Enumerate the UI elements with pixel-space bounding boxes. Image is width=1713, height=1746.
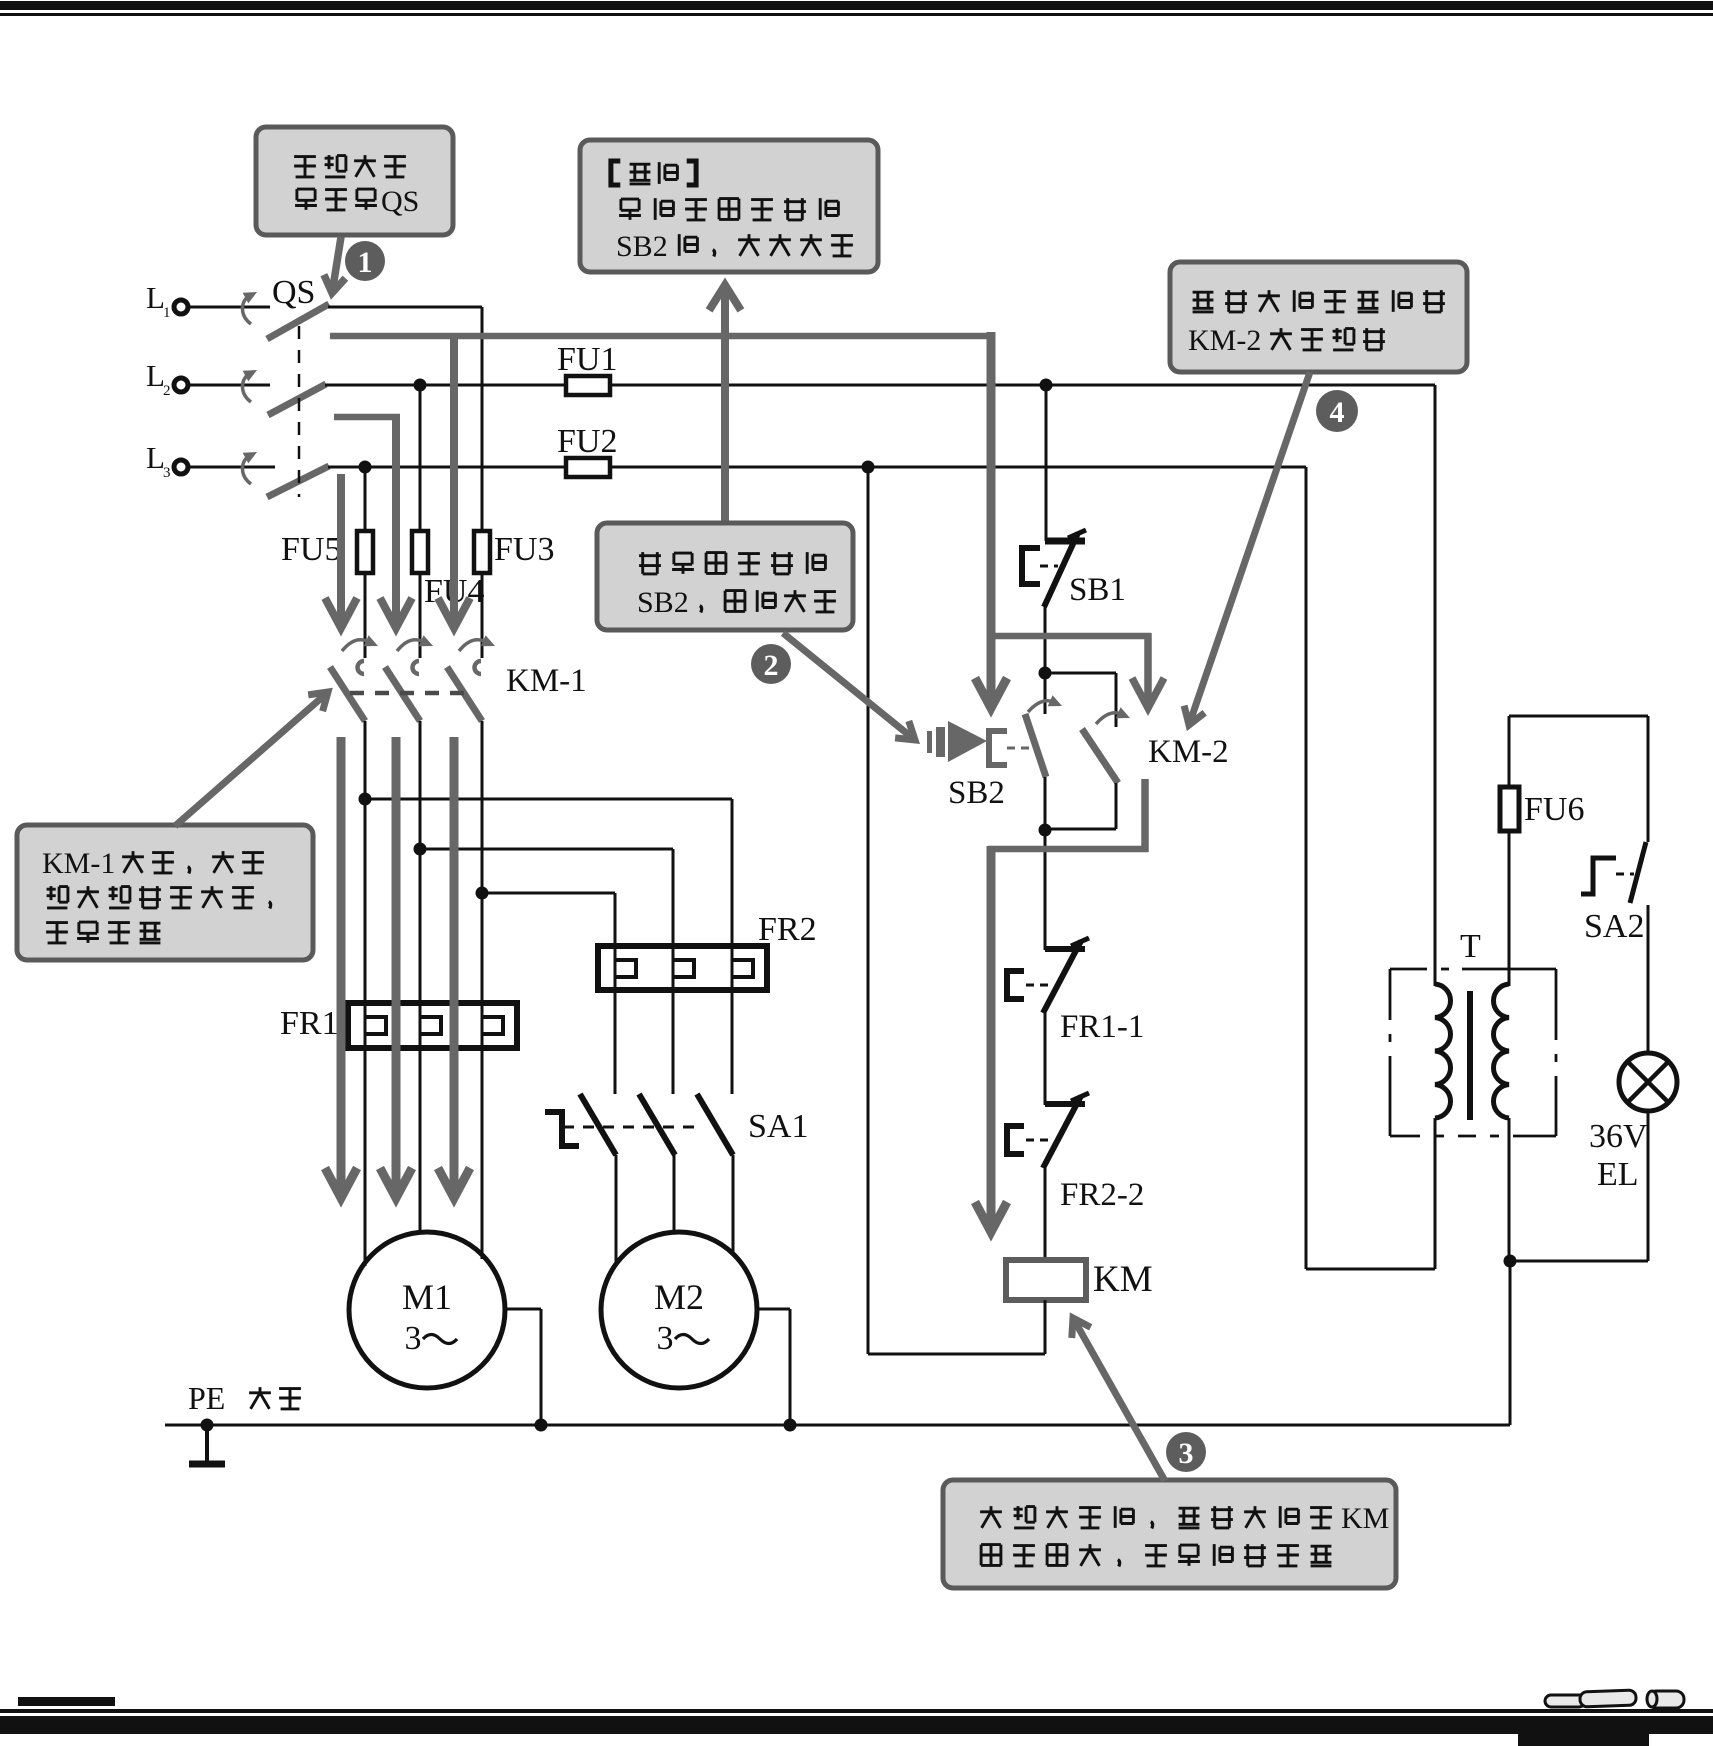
svg-text:1: 1 <box>163 305 171 321</box>
junction dot tap U <box>359 793 372 806</box>
junction dot tap W <box>476 887 489 900</box>
junction dot M2-PE <box>784 1419 797 1432</box>
contact FR1-1 top bar <box>1045 946 1085 952</box>
callout 2 number circle <box>751 644 791 684</box>
lamp EL <box>1619 1053 1677 1111</box>
terminal L2 <box>174 378 188 392</box>
switch QS blade pole3 <box>267 466 329 497</box>
svg-text:FU1: FU1 <box>557 341 617 378</box>
flow path L1 horizontal <box>330 333 995 340</box>
svg-text:2: 2 <box>163 383 171 399</box>
contactor KM-1 pole2 rotation arrow <box>397 640 422 651</box>
callout 2 leader <box>783 633 910 736</box>
svg-text:SA1: SA1 <box>748 1108 808 1145</box>
junction dot PE ground <box>201 1419 214 1432</box>
svg-text:SA2: SA2 <box>1584 908 1644 945</box>
wire tap U to FR2 <box>365 798 732 801</box>
switch SA1 blade2 <box>639 1094 675 1155</box>
switch QS blade pole1 <box>267 304 329 339</box>
wire L3 to QS <box>189 466 275 469</box>
flow arrow motor phase1 <box>337 737 346 1192</box>
contactor KM-1 pole2 operator arc <box>412 661 419 674</box>
bottom-right block mark <box>1518 1734 1649 1746</box>
svg-text:2: 2 <box>764 649 779 682</box>
wire KM-1 pole3 down <box>481 721 484 1048</box>
thermal relay FR2 heater1 <box>615 960 636 977</box>
wire FU5 to KM-1 <box>364 573 367 658</box>
svg-text:FU2: FU2 <box>557 423 617 460</box>
transformer T secondary winding <box>1493 984 1509 1118</box>
callout KM-1 text line3 <box>46 923 68 943</box>
svg-text:KM-1: KM-1 <box>42 847 115 880</box>
svg-text:1: 1 <box>358 246 373 279</box>
callout box KM-1 <box>17 825 313 960</box>
svg-text:QS: QS <box>381 185 419 218</box>
svg-text:KM-1: KM-1 <box>506 663 587 699</box>
contactor KM-1 linkage dashed <box>350 691 464 696</box>
coil KM <box>1006 1260 1086 1300</box>
callout box 3 <box>943 1480 1396 1588</box>
wire control return bottom <box>868 1353 1045 1356</box>
wire tap W to FR2 <box>482 892 615 895</box>
switch SA1 actuator <box>545 1112 579 1146</box>
wire L2 to QS <box>189 384 270 387</box>
wire SB2 to FR1-1 <box>1044 777 1047 950</box>
svg-text:FR1: FR1 <box>280 1005 339 1042</box>
label PE ground hanzi <box>249 1387 271 1409</box>
svg-text:KM: KM <box>1341 1502 1389 1535</box>
contactor KM-1 pole3 blade <box>447 667 482 721</box>
callout note arrow <box>721 291 729 523</box>
wire FR2-2 to KM coil <box>1044 1167 1047 1260</box>
thermal relay FR2 heater3 <box>732 960 753 977</box>
junction dot L3-FU5 tap <box>359 461 372 474</box>
contact FR1-1 actuator <box>1007 971 1024 999</box>
thermal relay FR2 box <box>598 946 767 990</box>
callout note text line2 <box>619 199 641 220</box>
junction dot node A <box>1039 667 1052 680</box>
wire L3 drop to FU5 <box>364 467 367 532</box>
contactor KM-1 pole3 operator arc <box>474 661 481 674</box>
wire M2 PE lead <box>757 1308 790 1311</box>
wire FU6 to winding <box>1508 831 1511 986</box>
switch SA2 blade <box>1630 842 1646 903</box>
wire secondary up to FU6 <box>1508 716 1511 787</box>
page frame bottom thick bar <box>0 1716 1713 1734</box>
wire L1 to QS <box>189 306 270 309</box>
callout 1 text line2 <box>295 189 317 210</box>
pushbutton SB1 top bar <box>1045 538 1085 545</box>
svg-text:4: 4 <box>1330 396 1345 429</box>
wire FR2 to SA1 a <box>614 990 617 1094</box>
bottom-left tab mark <box>18 1697 115 1706</box>
contact KM-2 blade <box>1082 729 1118 783</box>
callout 1 text line1 <box>294 157 316 177</box>
wire control return rail <box>867 467 870 1354</box>
wire FU4 to KM-1 <box>419 573 422 658</box>
svg-text:FR1-1: FR1-1 <box>1060 1009 1144 1045</box>
wire EL bottom to secondary <box>1510 1260 1648 1263</box>
motor M1 circle <box>349 1232 505 1388</box>
contact FR2-2 blade <box>1043 1096 1081 1168</box>
wire PE bus <box>165 1424 1510 1427</box>
callout box 1 <box>256 127 453 235</box>
fuse FU5 <box>357 531 373 573</box>
wire tap V to FR2 <box>420 848 673 851</box>
wire SA1 to M2 a <box>615 1155 618 1266</box>
junction dot tap V <box>414 843 427 856</box>
wire FU3 to KM-1 <box>481 573 484 658</box>
junction dot node B <box>1039 824 1052 837</box>
switch SA1 blade3 <box>697 1094 733 1155</box>
wire M1 lead3 <box>481 1048 484 1259</box>
svg-text:36V: 36V <box>1589 1118 1648 1155</box>
pushbutton SB2 press arrow <box>927 731 932 753</box>
contactor KM-1 pole1 blade <box>330 667 365 721</box>
wire FR2 to SA1 c <box>731 990 734 1094</box>
wire SA1 to M2 c <box>732 1155 735 1257</box>
flow path L1 drop to FU3 branch <box>450 339 458 622</box>
switch SA2 actuator <box>1581 858 1616 894</box>
wire L3 after QS <box>328 466 1306 469</box>
wire KM coil to return <box>1044 1300 1047 1354</box>
wire control drop to SB1 <box>1045 385 1048 541</box>
callout KM-1 text line2 <box>47 886 68 908</box>
wire KM-1 pole2 down <box>419 721 422 1048</box>
callout box note <box>580 140 878 272</box>
flow path to KM-2 branch <box>995 633 1151 640</box>
fuse FU1 <box>566 376 610 395</box>
wire EL down <box>1647 1111 1650 1261</box>
wire SB1 to node <box>1044 605 1047 714</box>
contact FR2-2 actuator <box>1007 1126 1024 1154</box>
callout 3 text line2 <box>981 1545 1001 1566</box>
callout 1 leader <box>333 237 341 287</box>
wire M1 lead2 <box>419 1048 422 1232</box>
switch QS rotation arrow pole2 <box>242 374 251 402</box>
wire node A to KM-2 <box>1045 672 1116 675</box>
transformer T box <box>1390 968 1427 971</box>
svg-text:QS: QS <box>272 274 315 311</box>
wire SA1 to M2 b <box>673 1155 676 1233</box>
contact FR1-1 blade <box>1043 941 1081 1013</box>
fuse FU2 <box>566 458 610 477</box>
wire PE riser <box>1509 1261 1512 1425</box>
svg-text:SB1: SB1 <box>1069 572 1126 608</box>
svg-text:FR2-2: FR2-2 <box>1060 1177 1144 1213</box>
switch QS linkage dashed <box>298 326 301 497</box>
pushbutton SB2 actuator <box>989 731 1007 765</box>
svg-text:SB2: SB2 <box>616 230 668 263</box>
transformer T primary winding <box>1435 984 1451 1118</box>
motor M2 circle <box>601 1232 757 1388</box>
wire M1 PE lead <box>505 1308 541 1311</box>
wire KM-2 bottom <box>1115 783 1118 829</box>
fuse FU6 <box>1500 787 1519 831</box>
svg-text:SB2: SB2 <box>948 775 1005 811</box>
junction dot L3 control tap <box>862 461 875 474</box>
contactor KM-1 pole1 rotation arrow <box>342 640 367 651</box>
junction dot L2 control tap <box>1040 379 1053 392</box>
callout 3 number circle <box>1166 1432 1206 1472</box>
junction dot L2-FU4 tap <box>414 379 427 392</box>
contactor KM-1 pole3 rotation arrow <box>459 640 484 651</box>
page frame bottom thin line <box>0 1709 1713 1713</box>
svg-text:SB2: SB2 <box>637 586 689 619</box>
switch SA1 blade1 <box>580 1094 616 1155</box>
svg-text:T: T <box>1460 928 1481 965</box>
callout 3 text line1 <box>980 1506 1002 1528</box>
wire L2 to transformer primary <box>1434 385 1437 986</box>
thermal relay FR1 heater3 <box>482 1017 503 1034</box>
flow path below KM-2 <box>1141 779 1149 852</box>
pushbutton SB1 blade <box>1044 533 1078 607</box>
wire L1 drop to FU3 <box>481 307 484 532</box>
callout 4 number circle <box>1316 390 1358 432</box>
thermal relay FR1 heater2 <box>420 1017 441 1034</box>
wire L1 after QS <box>328 306 482 309</box>
flow arrow motor phase3 <box>450 737 459 1192</box>
flow arrow motor phase2 <box>392 737 401 1192</box>
svg-text:FR2: FR2 <box>758 911 817 948</box>
thermal relay FR1 box <box>348 1003 517 1048</box>
wire L3 to primary return <box>1305 467 1308 1269</box>
svg-text:KM: KM <box>1093 1259 1153 1300</box>
switch QS blade pole2 <box>268 384 326 415</box>
flow path L3 branch <box>337 474 345 622</box>
wire M1 lead1 <box>364 1048 367 1266</box>
svg-text:KM-2: KM-2 <box>1188 324 1261 357</box>
callout KM-1 leader <box>175 696 324 826</box>
callout 1 number circle <box>345 241 385 281</box>
svg-text:FU3: FU3 <box>494 531 554 568</box>
contact FR2-2 top bar <box>1045 1101 1085 1107</box>
scroll decoration icons <box>1545 1690 1684 1708</box>
wire FR1-1 to FR2-2 <box>1044 1012 1047 1105</box>
thermal relay FR2 heater2 <box>673 960 694 977</box>
page frame top thick bar <box>0 1 1713 10</box>
fuse FU3 <box>474 531 490 573</box>
wire secondary top loop <box>1509 715 1648 718</box>
fuse FU4 <box>412 531 428 573</box>
contactor KM-1 pole1 operator arc <box>358 661 365 674</box>
callout 4 leader <box>1191 372 1310 719</box>
pushbutton SB2 rotation arrow <box>1028 701 1054 712</box>
flow path control drop <box>987 332 996 702</box>
svg-text:EL: EL <box>1597 1156 1639 1193</box>
switch QS rotation arrow pole3 <box>242 456 251 484</box>
page frame top thin line <box>0 13 1713 16</box>
switch SA1 linkage dashed <box>563 1126 702 1129</box>
pushbutton SB1 actuator <box>1022 548 1040 584</box>
svg-text:KM-2: KM-2 <box>1148 734 1229 770</box>
callout note text line1 <box>611 161 620 185</box>
svg-text:3: 3 <box>405 1320 422 1357</box>
wire SA2 to EL <box>1647 905 1650 1053</box>
wire FR2 to SA1 b <box>672 990 675 1094</box>
callout 4 text line1 <box>1193 292 1214 312</box>
terminal L1 <box>174 300 188 314</box>
ground symbol <box>205 1425 209 1462</box>
thermal relay FR1 heater1 <box>365 1017 386 1034</box>
svg-text:M2: M2 <box>654 1277 704 1317</box>
callout box 2 <box>597 523 853 630</box>
contactor KM-1 pole2 blade <box>385 667 420 721</box>
switch QS rotation arrow pole1 <box>242 296 251 324</box>
wire L2 after QS <box>325 384 1435 387</box>
terminal L3 <box>174 460 188 474</box>
wire L2 drop to FU4 <box>419 385 422 532</box>
svg-text:3: 3 <box>657 1320 674 1357</box>
pushbutton SB2 blade <box>1025 714 1046 777</box>
svg-text:FU6: FU6 <box>1524 791 1584 828</box>
junction dot secondary-PE <box>1504 1255 1517 1268</box>
svg-text:M1: M1 <box>402 1277 452 1317</box>
svg-text:3: 3 <box>1179 1437 1194 1470</box>
wire secondary winding down <box>1508 1118 1511 1261</box>
wire KM-1 pole1 down <box>364 721 367 1048</box>
svg-text:3: 3 <box>163 465 171 481</box>
transformer T core <box>1467 991 1473 1120</box>
svg-text:PE: PE <box>188 1380 225 1416</box>
callout box 4 <box>1170 262 1467 372</box>
callout 2 text line1 <box>639 552 661 574</box>
junction dot M1-PE <box>535 1419 548 1432</box>
contact KM-2 rotation arrow <box>1096 713 1122 724</box>
flow path L2 branch <box>334 414 400 421</box>
callout 3 leader <box>1076 1323 1165 1481</box>
svg-text:FU5: FU5 <box>281 531 341 568</box>
